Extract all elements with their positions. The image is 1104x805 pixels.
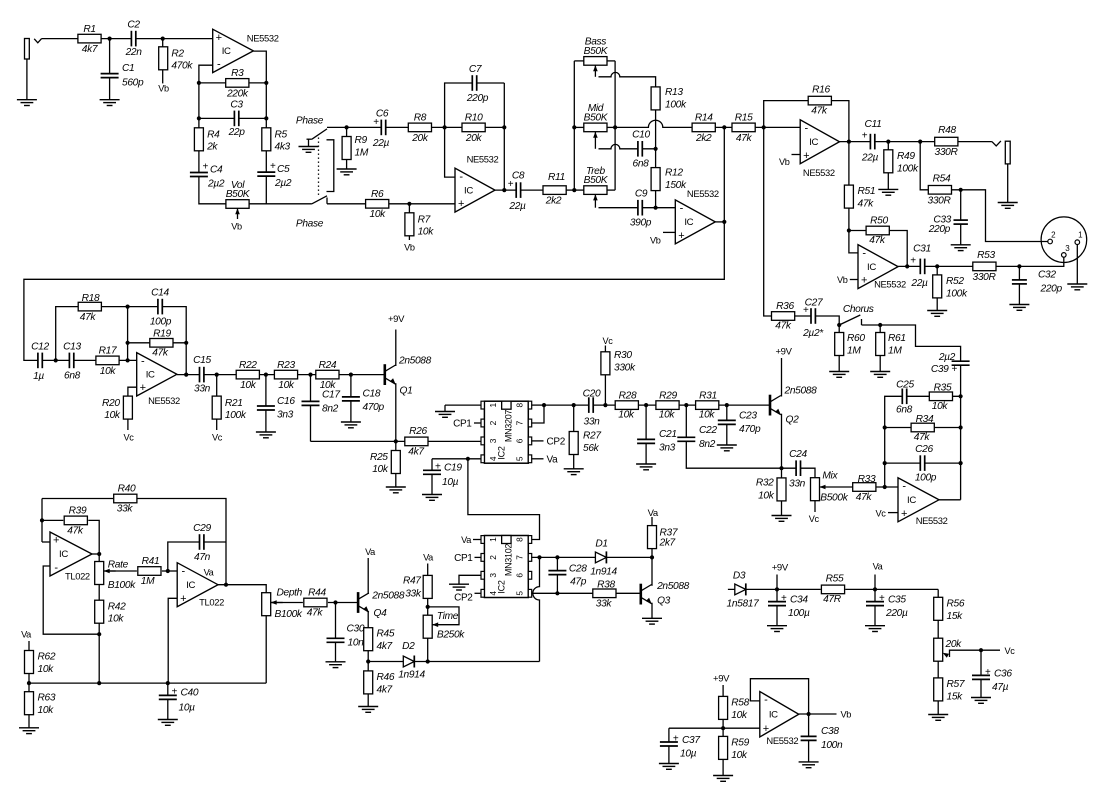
svg-text:IC: IC (809, 137, 818, 148)
wire (346, 127, 348, 169)
switch bracket (327, 140, 334, 192)
capacitor C38 (800, 726, 843, 751)
svg-text:NE5532: NE5532 (467, 154, 499, 165)
junction (847, 140, 851, 144)
wire (531, 592, 593, 594)
svg-text:TL022: TL022 (199, 597, 224, 608)
svg-text:R46: R46 (377, 672, 395, 683)
ground (19, 728, 39, 734)
potentiometer Mix (811, 470, 849, 503)
op-amp IC1a NE5532 (213, 29, 254, 72)
wire (781, 358, 783, 397)
svg-text:Vb: Vb (841, 710, 852, 720)
svg-text:1M: 1M (141, 576, 155, 587)
svg-text:10µ: 10µ (179, 702, 196, 713)
wire (764, 127, 772, 316)
svg-text:10k: 10k (108, 614, 125, 625)
wire (427, 564, 429, 576)
IC IC2 MN3207 (481, 401, 532, 463)
junction (886, 140, 890, 144)
svg-text:33k: 33k (117, 504, 134, 515)
svg-text:2k2: 2k2 (695, 133, 712, 144)
wire (722, 759, 724, 775)
svg-text:Vc: Vc (809, 514, 820, 524)
resistor R32 (756, 477, 786, 501)
wire (444, 405, 446, 411)
capacitor C23 (717, 411, 761, 436)
wire (495, 189, 544, 191)
wire (395, 330, 397, 367)
svg-text:R15: R15 (735, 113, 753, 124)
svg-text:D3: D3 (733, 570, 746, 581)
junction (264, 81, 268, 85)
wire (937, 589, 939, 597)
ground (713, 776, 733, 782)
ground (386, 487, 406, 493)
junction (426, 605, 430, 609)
junction (722, 125, 726, 129)
junction (215, 373, 219, 377)
svg-text:3n3: 3n3 (659, 443, 676, 454)
resistor R42 (95, 600, 126, 625)
wire (651, 549, 653, 558)
capacitor C16 (256, 396, 295, 421)
potentiometer Bass (584, 37, 609, 77)
wire (88, 520, 99, 561)
wire (726, 405, 728, 445)
svg-text:+: + (216, 32, 222, 44)
wire (98, 585, 100, 684)
svg-text:1M: 1M (355, 148, 369, 159)
wire (885, 462, 961, 464)
svg-text:B50K: B50K (584, 113, 609, 124)
switch link (dashed) (318, 138, 320, 197)
wire (459, 575, 481, 584)
resistor R10 (462, 113, 485, 144)
wire (427, 638, 429, 661)
junction (308, 373, 312, 377)
wire (606, 556, 652, 558)
capacitor C37 (659, 733, 700, 759)
svg-text:NE5532: NE5532 (247, 33, 279, 44)
svg-text:2k7: 2k7 (659, 538, 676, 549)
capacitor C12 (31, 342, 49, 383)
wire (327, 126, 408, 128)
capacitor C6 (372, 109, 390, 150)
svg-text:8: 8 (515, 537, 525, 542)
resistor R61 (876, 333, 906, 357)
junction (878, 323, 882, 327)
svg-text:47k: 47k (858, 199, 875, 210)
potentiometer Rate (95, 560, 136, 592)
svg-text:R4: R4 (207, 130, 220, 141)
junction (762, 125, 766, 129)
wire (367, 611, 369, 628)
svg-text:R58: R58 (731, 698, 749, 709)
junction (345, 125, 349, 129)
svg-text:Vb: Vb (158, 84, 169, 94)
svg-text:2: 2 (488, 420, 498, 425)
svg-text:C40: C40 (181, 687, 199, 698)
resistor R25 (370, 451, 400, 476)
resistor R63 (25, 692, 56, 717)
wire (271, 602, 303, 604)
svg-text:+: + (203, 162, 209, 173)
wire (162, 570, 177, 572)
svg-text:+: + (508, 179, 514, 190)
junction (572, 188, 576, 192)
svg-text:Vc: Vc (123, 433, 134, 443)
svg-text:+9V: +9V (772, 562, 789, 573)
wire (599, 207, 676, 209)
ground (799, 762, 819, 768)
resistor R38 (593, 579, 616, 609)
svg-text:100µ: 100µ (788, 608, 810, 619)
svg-text:20k: 20k (411, 133, 429, 144)
resistor R16 (808, 85, 831, 117)
wire (663, 231, 675, 233)
ground (642, 618, 662, 624)
wire (266, 203, 312, 205)
svg-text:+: + (952, 364, 958, 375)
capacitor C30 (326, 624, 365, 649)
svg-text:Va: Va (461, 535, 472, 545)
svg-text:C38: C38 (821, 726, 839, 737)
svg-text:47k: 47k (307, 608, 324, 619)
ground (299, 147, 319, 153)
resistor R48 (935, 125, 959, 158)
svg-text:+: + (910, 256, 916, 267)
wire (42, 38, 213, 40)
svg-text:R42: R42 (108, 601, 126, 612)
svg-text:IC: IC (769, 709, 778, 720)
svg-text:B50K: B50K (584, 175, 609, 186)
junction (644, 403, 648, 407)
svg-text:10k: 10k (731, 710, 748, 721)
wire (715, 221, 724, 223)
wire (428, 607, 459, 625)
svg-text:NE5532: NE5532 (803, 167, 835, 178)
wire (395, 383, 397, 441)
svg-text:C26: C26 (915, 444, 933, 455)
svg-text:TL022: TL022 (65, 571, 90, 582)
svg-text:D2: D2 (402, 641, 415, 652)
svg-text:2µ2: 2µ2 (207, 179, 225, 190)
wire (888, 512, 898, 514)
svg-text:2µ2: 2µ2 (274, 178, 292, 189)
junction (935, 264, 939, 268)
wire (335, 603, 337, 662)
svg-text:+: + (140, 382, 146, 394)
svg-text:47k: 47k (914, 432, 931, 443)
resistor R45 (364, 628, 395, 652)
junction (883, 485, 887, 489)
wire (776, 575, 778, 590)
svg-text:Mix: Mix (822, 470, 838, 481)
svg-text:33k: 33k (405, 589, 422, 600)
IC IC2 MN3102 (481, 536, 532, 598)
capacitor C39 (931, 352, 970, 375)
wire (728, 588, 821, 590)
svg-text:+: + (901, 508, 907, 520)
svg-text:C23: C23 (739, 411, 757, 422)
wire (445, 83, 505, 177)
svg-text:2µ2*: 2µ2* (802, 328, 824, 339)
svg-text:47k: 47k (869, 235, 886, 246)
capacitor C11 (861, 119, 882, 164)
ground (326, 662, 346, 668)
junction (883, 461, 887, 465)
output jack J2 (992, 141, 1010, 203)
svg-text:47k: 47k (811, 106, 828, 117)
svg-text:4k7: 4k7 (377, 641, 393, 652)
resistor R1 (78, 24, 101, 55)
svg-text:3n3: 3n3 (277, 410, 294, 421)
wire (162, 39, 164, 84)
wire (24, 127, 724, 360)
svg-text:C31: C31 (913, 243, 931, 254)
svg-text:R62: R62 (38, 652, 56, 663)
switch Chorus (839, 315, 860, 325)
svg-text:C37: C37 (682, 735, 700, 746)
svg-text:10k: 10k (618, 410, 635, 421)
svg-text:R25: R25 (370, 452, 388, 463)
wire (531, 458, 543, 460)
svg-text:4k7: 4k7 (408, 447, 424, 458)
ground (951, 245, 971, 251)
resistor R35 (929, 383, 952, 412)
wire (533, 557, 540, 661)
svg-text:C13: C13 (63, 342, 81, 353)
svg-text:Vc: Vc (875, 508, 886, 518)
wire (887, 142, 889, 190)
wire (607, 60, 616, 62)
svg-text:C2: C2 (127, 20, 140, 31)
resistor R6 (366, 189, 389, 220)
svg-text:47R: 47R (823, 594, 842, 605)
wire (367, 651, 369, 671)
svg-text:6n8: 6n8 (896, 405, 913, 416)
wire (42, 519, 63, 521)
resistor R13 (651, 87, 687, 111)
junction (126, 305, 130, 309)
svg-text:1: 1 (488, 402, 498, 407)
svg-text:7: 7 (515, 420, 525, 425)
svg-text:IC: IC (186, 580, 195, 591)
svg-text:330R: 330R (935, 147, 959, 158)
wire (474, 422, 481, 424)
wire (43, 566, 99, 634)
junction (883, 425, 887, 429)
junction (443, 125, 447, 129)
svg-text:+: + (763, 723, 769, 735)
wire (199, 117, 266, 119)
svg-text:22µ: 22µ (861, 153, 879, 164)
wire (874, 589, 876, 625)
svg-text:100k: 100k (946, 289, 968, 300)
svg-text:10k: 10k (100, 366, 117, 377)
resistor R12 (651, 168, 687, 192)
resistor R4 (194, 128, 220, 153)
capacitor C18 (341, 389, 384, 414)
resistor R7 (405, 213, 434, 238)
wire (849, 230, 866, 232)
junction (837, 323, 841, 327)
resistor R28 (615, 390, 638, 420)
svg-text:CP1: CP1 (453, 419, 472, 430)
svg-text:Chorus: Chorus (843, 304, 874, 315)
wire (92, 553, 99, 555)
wire (574, 189, 584, 191)
wire (308, 139, 310, 146)
svg-text:+: + (458, 198, 464, 210)
svg-text:C8: C8 (512, 171, 525, 182)
ground (659, 764, 679, 770)
svg-text:C35: C35 (888, 595, 906, 606)
svg-text:C5: C5 (277, 164, 290, 175)
svg-text:8n2: 8n2 (322, 404, 339, 415)
resistor R55 (821, 574, 844, 606)
wire (167, 683, 169, 719)
svg-text:10k: 10k (278, 380, 295, 391)
svg-text:20k: 20k (945, 639, 963, 650)
svg-text:1n914: 1n914 (398, 669, 425, 680)
wire (445, 404, 481, 406)
svg-text:220p: 220p (466, 93, 489, 104)
junction (847, 228, 851, 232)
svg-text:R61: R61 (888, 333, 906, 344)
svg-text:1M: 1M (847, 346, 861, 357)
svg-text:C28: C28 (569, 564, 587, 575)
svg-text:R63: R63 (38, 693, 56, 704)
svg-text:CP1: CP1 (454, 553, 473, 564)
junction (918, 140, 922, 144)
resistor R27 (569, 431, 601, 455)
wire (599, 72, 656, 87)
junction (264, 116, 268, 120)
svg-text:47µ: 47µ (992, 682, 1009, 693)
resistor R50 (866, 216, 889, 247)
junction (502, 125, 506, 129)
resistor R41 (138, 556, 161, 587)
svg-text:+9V: +9V (388, 314, 405, 325)
svg-text:+: + (180, 593, 186, 605)
svg-text:1: 1 (488, 537, 498, 542)
resistor R20 (102, 396, 132, 421)
svg-text:C1: C1 (122, 63, 134, 74)
capacitor C4 (189, 162, 224, 190)
svg-text:MN3102: MN3102 (504, 544, 514, 577)
junction (54, 358, 58, 362)
svg-text:R2: R2 (171, 49, 184, 60)
svg-text:R19: R19 (153, 329, 171, 340)
capacitor C20 (583, 389, 601, 428)
svg-text:C22: C22 (699, 425, 717, 436)
wire (199, 65, 226, 204)
potentiometer 20k (934, 638, 962, 661)
svg-text:NE5532: NE5532 (766, 735, 798, 746)
svg-text:R20: R20 (102, 398, 120, 409)
junction (873, 587, 877, 591)
ground (928, 715, 948, 721)
svg-text:C4: C4 (210, 165, 223, 176)
wire (874, 575, 876, 590)
resistor R11 (543, 172, 566, 206)
potentiometer Vol (226, 180, 251, 219)
resistor R23 (274, 360, 297, 391)
svg-text:100k: 100k (225, 410, 247, 421)
capacitor C25 (896, 379, 914, 415)
svg-text:330R: 330R (928, 196, 952, 207)
wire (350, 375, 352, 422)
wire (651, 557, 653, 585)
svg-text:4k7: 4k7 (82, 44, 98, 55)
junction (555, 591, 559, 595)
svg-text:+: + (879, 593, 885, 604)
wire (840, 141, 992, 143)
wire (764, 126, 801, 128)
svg-text:10k: 10k (659, 410, 676, 421)
svg-text:22µ: 22µ (910, 278, 928, 289)
svg-text:R6: R6 (371, 189, 384, 200)
svg-text:IC: IC (684, 217, 693, 228)
svg-text:+9V: +9V (775, 346, 792, 357)
svg-text:R27: R27 (583, 431, 601, 442)
wire (792, 154, 801, 156)
junction (537, 555, 541, 559)
wire (249, 51, 266, 204)
resistor R49 (884, 150, 919, 175)
wire (265, 375, 267, 432)
svg-text:IC: IC (867, 262, 876, 273)
svg-text:33n: 33n (584, 417, 601, 428)
svg-text:C30: C30 (347, 624, 365, 635)
junction (721, 726, 725, 730)
ground (337, 169, 357, 175)
svg-text:10k: 10k (38, 705, 55, 716)
wire (776, 589, 778, 625)
wire (566, 189, 575, 191)
svg-text:NE5532: NE5532 (916, 515, 948, 526)
svg-text:R5: R5 (275, 130, 288, 141)
svg-text:10k: 10k (758, 491, 775, 502)
svg-text:IC: IC (464, 185, 473, 196)
resistor R39 (64, 506, 87, 537)
wire (432, 458, 481, 460)
junction (502, 188, 506, 192)
junction (264, 373, 268, 377)
wire (531, 404, 544, 406)
svg-text:Va: Va (204, 568, 215, 578)
capacitor C14 (150, 288, 172, 328)
wire (848, 142, 850, 231)
wire (327, 203, 455, 205)
svg-text:R24: R24 (319, 360, 337, 371)
wire (127, 307, 129, 361)
wire (814, 501, 816, 512)
wire (177, 374, 385, 376)
junction (603, 403, 607, 407)
capacitor C29 (193, 523, 211, 563)
wire (764, 101, 849, 142)
resistor R3 (226, 68, 249, 99)
op-amp IC4b TL022 (177, 563, 218, 607)
svg-text:R23: R23 (277, 360, 295, 371)
wire (310, 375, 312, 442)
capacitor C17 (301, 390, 340, 415)
wire (799, 713, 837, 715)
wire (41, 499, 43, 543)
